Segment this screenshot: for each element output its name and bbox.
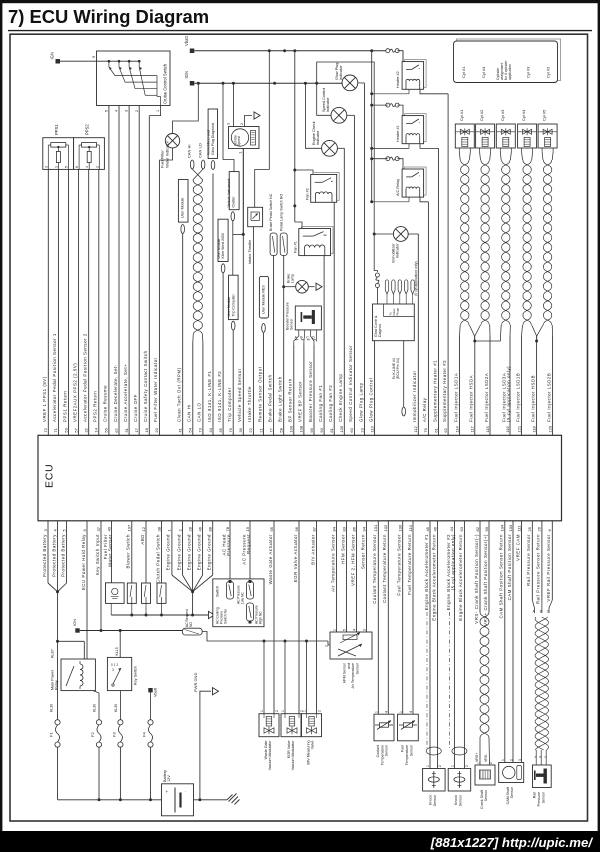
junction heater1 fuse tap bbox=[370, 104, 373, 107]
svg-text:87: 87 bbox=[311, 526, 316, 531]
svg-text:62: 62 bbox=[443, 427, 448, 432]
svg-text:Engine Ground: Engine Ground bbox=[207, 534, 212, 570]
svg-text:2: 2 bbox=[275, 710, 279, 712]
svg-text:Engine Ground: Engine Ground bbox=[186, 534, 191, 570]
svg-text:Protected Battery: Protected Battery bbox=[42, 534, 47, 577]
junction key switch input bbox=[100, 629, 103, 632]
node Vbatt bottom source bbox=[148, 687, 157, 697]
svg-text:CAM Shaft Position Sensor: CAM Shaft Position Sensor bbox=[507, 534, 512, 600]
crank shaft sensor box bbox=[475, 762, 495, 809]
svg-text:50: 50 bbox=[104, 427, 109, 432]
svg-text:Supplementary Heater #2: Supplementary Heater #2 bbox=[442, 360, 447, 422]
junction IGN bus bbox=[315, 82, 318, 85]
svg-text:45: 45 bbox=[425, 526, 430, 531]
svg-text:5: 5 bbox=[105, 110, 109, 112]
right page border bbox=[598, 0, 600, 852]
svg-text:Sensor: Sensor bbox=[541, 791, 545, 803]
wire pin 116 Fuel Injector LSD3A bbox=[502, 336, 512, 435]
svg-text:90: 90 bbox=[484, 526, 489, 531]
svg-text:101: 101 bbox=[373, 524, 378, 531]
svg-text:ISO 9141, K-LINE #1: ISO 9141, K-LINE #1 bbox=[207, 371, 212, 422]
injector braid 1 split bbox=[460, 325, 475, 341]
svg-text:6: 6 bbox=[75, 166, 79, 168]
svg-text:Glow Plug Lamp: Glow Plug Lamp bbox=[358, 382, 363, 422]
svg-text:120: 120 bbox=[547, 425, 552, 432]
injector braid 3 split bbox=[501, 325, 511, 341]
svg-text:Cooling Fan #1: Cooling Fan #1 bbox=[318, 385, 323, 422]
wire pin 18 Cruise Safety Contact Switch bbox=[143, 116, 149, 436]
svg-text:Main Power: Main Power bbox=[50, 669, 54, 690]
svg-text:Coolant Temperature Return: Coolant Temperature Return bbox=[382, 534, 387, 603]
wire pin 20 Fuel Filter Water Indicator bbox=[153, 160, 159, 435]
svg-text:1: 1 bbox=[303, 710, 307, 712]
junction bottom bus bbox=[149, 798, 152, 801]
junction ground bus bbox=[145, 614, 148, 617]
oval CAN LO connector bbox=[198, 143, 205, 169]
svg-text:KL30: KL30 bbox=[93, 704, 97, 712]
svg-text:Sensor: Sensor bbox=[433, 794, 437, 806]
svg-text:User Module: User Module bbox=[181, 198, 185, 218]
braid crank VRS bbox=[475, 612, 490, 765]
wire pin 83 HFM Sensor bbox=[340, 521, 346, 632]
fuse F1 bbox=[49, 720, 61, 800]
svg-text:95: 95 bbox=[269, 526, 274, 531]
svg-text:VRS-: VRS- bbox=[484, 753, 488, 762]
svg-text:Glow Contr &: Glow Contr & bbox=[374, 315, 378, 337]
wire pin 35 ISO 9141, K-LINE #2 bbox=[217, 273, 223, 435]
relay A/C bbox=[396, 167, 426, 197]
wire IGN to speed lamp bbox=[317, 83, 331, 115]
ABD switch box bbox=[142, 583, 151, 615]
svg-text:3: 3 bbox=[112, 668, 114, 672]
svg-text:94: 94 bbox=[361, 526, 366, 531]
wire IGN to cruise box bbox=[60, 60, 97, 62]
braid injector 2 twisted pair bbox=[480, 152, 491, 325]
svg-text:A: A bbox=[535, 755, 537, 759]
svg-text:NO: NO bbox=[189, 622, 193, 627]
wire pin 103 CAM Shaft Position Sensor bbox=[507, 521, 513, 763]
wire Vbatt to F4 bbox=[150, 692, 152, 719]
svg-text:53: 53 bbox=[63, 427, 68, 432]
svg-text:21: 21 bbox=[258, 427, 263, 432]
svg-text:Clutch Pedal Switch: Clutch Pedal Switch bbox=[155, 534, 160, 583]
svg-text:Sensor: Sensor bbox=[290, 318, 294, 330]
junction Vbatt bus bbox=[268, 49, 271, 52]
svg-text:Glow Plug Diagnosis: Glow Plug Diagnosis bbox=[211, 122, 215, 155]
svg-text:Cyl #1: Cyl #1 bbox=[459, 109, 464, 121]
svg-text:Water Indicator: Water Indicator bbox=[164, 140, 169, 168]
svg-text:Kline West 2000: Kline West 2000 bbox=[221, 233, 225, 258]
svg-text:Cyl #1: Cyl #1 bbox=[461, 66, 466, 78]
svg-text:Engine Ground: Engine Ground bbox=[166, 534, 171, 570]
wire pin 105 Check Engine Lamp bbox=[338, 148, 344, 435]
svg-text:Switch No: Switch No bbox=[223, 609, 227, 624]
ECU label bbox=[44, 463, 56, 488]
wire pin 23 Glow Plug Lamp bbox=[358, 83, 364, 435]
svg-text:Water Sensor: Water Sensor bbox=[108, 534, 113, 567]
booster pressure sensor box bbox=[285, 302, 321, 330]
svg-text:Speed Control Indicator Sensor: Speed Control Indicator Sensor bbox=[348, 345, 353, 422]
svg-text:User Module: User Module bbox=[217, 239, 221, 259]
junction ground bus bbox=[160, 614, 163, 617]
svg-text:111: 111 bbox=[516, 525, 521, 532]
wire heater1 out to pin61 bbox=[420, 144, 439, 149]
junction key switch feed bbox=[119, 629, 122, 657]
wire pin 34 ISO 9141, K-LINE #1 bbox=[207, 174, 213, 436]
wire speed lamp right bbox=[347, 114, 355, 116]
junction ac coil return bbox=[370, 200, 373, 203]
svg-text:79: 79 bbox=[423, 427, 428, 432]
relay Heater #2 bbox=[396, 60, 426, 90]
left page border bbox=[0, 0, 2, 852]
user module trip computer box bbox=[227, 275, 238, 319]
svg-text:Clean Tach Out (RPM): Clean Tach Out (RPM) bbox=[177, 367, 182, 422]
svg-text:Rail: Rail bbox=[533, 792, 537, 798]
watermark text bbox=[430, 835, 594, 850]
oval kline west connector bbox=[221, 264, 225, 273]
HFM sensor box bbox=[325, 629, 373, 689]
svg-text:User Module: User Module bbox=[227, 297, 231, 317]
svg-text:Sensor: Sensor bbox=[409, 744, 413, 756]
wire IGN to engine check lamp bbox=[305, 83, 321, 148]
glow control box bbox=[373, 304, 415, 341]
wire pin 113 Glow Plug Control bbox=[368, 341, 374, 436]
wire pin 19 AC Pressure bbox=[242, 521, 252, 579]
svg-text:Waste Gate Actuator: Waste Gate Actuator bbox=[268, 534, 273, 584]
svg-text:73: 73 bbox=[198, 427, 203, 432]
svg-text:83: 83 bbox=[341, 526, 346, 531]
svg-text:5: 5 bbox=[343, 629, 347, 631]
svg-text:Plugs: Plugs bbox=[395, 307, 399, 315]
svg-text:2: 2 bbox=[135, 110, 139, 112]
cruise control switch box bbox=[92, 51, 170, 106]
svg-text:100: 100 bbox=[398, 524, 403, 531]
svg-text:44: 44 bbox=[449, 526, 454, 531]
wire bus into HFM bbox=[328, 641, 330, 645]
svg-text:34: 34 bbox=[208, 427, 213, 432]
svg-text:1: 1 bbox=[477, 762, 481, 764]
svg-text:60: 60 bbox=[349, 427, 354, 432]
wire Vbatt fuse to heater2 bbox=[398, 51, 404, 62]
pedal position sensor PPS2 bbox=[74, 124, 105, 170]
wire pin 63 Engine Block Accelerometer Return bbox=[458, 521, 464, 769]
svg-text:Protected Battery: Protected Battery bbox=[60, 534, 65, 577]
svg-text:PPS2 Return: PPS2 Return bbox=[93, 391, 98, 422]
svg-text:Fuel Temperature Sensor: Fuel Temperature Sensor bbox=[397, 534, 402, 596]
svg-text:2: 2 bbox=[510, 759, 514, 761]
junction HSDA merge bbox=[473, 340, 500, 343]
svg-text:PPS1 Return: PPS1 Return bbox=[62, 391, 67, 422]
svg-text:Temperature: Temperature bbox=[380, 745, 384, 765]
wire bottom battery bus bbox=[58, 799, 228, 801]
fuel temperature sensor box bbox=[398, 711, 419, 765]
svg-text:1: 1 bbox=[501, 759, 505, 761]
svg-text:+: + bbox=[166, 789, 169, 794]
braid injector 1 twisted pair bbox=[459, 152, 470, 325]
wire pin 50 Cruise Resume bbox=[103, 106, 109, 436]
svg-text:25: 25 bbox=[527, 526, 532, 531]
node IGN bottom source bbox=[72, 619, 80, 633]
svg-text:77: 77 bbox=[268, 427, 273, 432]
wire IGN to instrument cluster bbox=[223, 83, 234, 171]
svg-text:Sensor: Sensor bbox=[385, 744, 389, 756]
svg-text:Vbatt: Vbatt bbox=[184, 35, 189, 46]
vehicle instrument cluster box bbox=[227, 172, 239, 210]
svg-text:Engine Block Accelerometer Ret: Engine Block Accelerometer Return bbox=[431, 534, 436, 621]
svg-text:Fuel Filter Water Indicator: Fuel Filter Water Indicator bbox=[153, 357, 158, 422]
wire lamp top to IGN bus bbox=[173, 83, 199, 133]
battery box bbox=[162, 770, 194, 816]
wire Vbatt to intake throttle bbox=[255, 51, 270, 208]
junction modulator bus bbox=[284, 640, 287, 643]
wire pin 54 CAN Hi bbox=[187, 343, 193, 435]
AC request switch capsule bbox=[182, 609, 202, 635]
svg-text:Key Switch Input: Key Switch Input bbox=[95, 534, 100, 575]
svg-text:4: 4 bbox=[85, 166, 89, 168]
vacuum modulator EGR Valve bbox=[281, 641, 304, 770]
wire fuse to heater1 bbox=[372, 105, 403, 116]
wire pin 86 VREF 2, HFM Sensor bbox=[350, 521, 356, 632]
wire pin 60 Speed Control Indicator Sensor bbox=[348, 115, 354, 435]
svg-text:5: 5 bbox=[65, 166, 69, 168]
wire pin 25 Rail Pressure Sensor bbox=[526, 521, 532, 600]
wire heater1 coil return bbox=[372, 144, 409, 149]
svg-text:VRS- Crank Shaft Position Sens: VRS- Crank Shaft Position Sensor(-) bbox=[474, 534, 479, 624]
wire pin 53 PPS1 Return bbox=[62, 169, 68, 435]
svg-text:Immobilizer and: Immobilizer and bbox=[207, 130, 211, 155]
svg-text:Engine Block Accelerometer Ret: Engine Block Accelerometer Return bbox=[458, 534, 463, 621]
svg-text:Fuel Temperature Return: Fuel Temperature Return bbox=[407, 534, 412, 595]
cam shaft sensor box bbox=[499, 759, 524, 804]
svg-text:9: 9 bbox=[92, 56, 96, 58]
svg-text:ISO 9141, K-LINE #2: ISO 9141, K-LINE #2 bbox=[217, 371, 222, 422]
wire pin 107 Blower Switch bbox=[126, 521, 132, 583]
node Vbatt source bbox=[184, 35, 194, 53]
svg-text:118: 118 bbox=[531, 425, 536, 432]
svg-text:IGN: IGN bbox=[184, 71, 189, 78]
junction KL87 bbox=[56, 640, 59, 643]
svg-text:VREF 2, HFM Sensor: VREF 2, HFM Sensor bbox=[350, 534, 355, 586]
fuse F2 bbox=[90, 720, 102, 800]
wire feed to fan2 bbox=[295, 170, 313, 175]
wire pin 37 Key Switch Input bbox=[95, 521, 101, 631]
wire IGN to gauge pin3 bbox=[232, 83, 234, 126]
svg-text:2: 2 bbox=[317, 710, 321, 712]
svg-text:Engine Check: Engine Check bbox=[312, 121, 316, 145]
svg-text:Heater #1: Heater #1 bbox=[396, 125, 400, 142]
wire pin 100 Fuel Temperature Sensor bbox=[397, 521, 403, 716]
brake pedal switch NC capsule bbox=[269, 193, 277, 255]
junction ac relay fuse tap bbox=[370, 157, 373, 160]
wire glow control to pin113 bbox=[374, 340, 376, 342]
svg-text:Coolant Temperature Sensor: Coolant Temperature Sensor bbox=[372, 534, 377, 604]
fuel filter water sensor box bbox=[106, 583, 125, 615]
svg-text:F4: F4 bbox=[142, 732, 147, 737]
svg-text:VREF CAM: VREF CAM bbox=[515, 534, 520, 561]
svg-text:Check Engine Lamp: Check Engine Lamp bbox=[338, 373, 343, 422]
wire pin 117 Fuel Injector HSDA bbox=[469, 341, 475, 435]
oval instrument cluster connector bbox=[231, 212, 235, 221]
svg-text:Fan #1: Fan #1 bbox=[294, 241, 298, 253]
svg-text:Cyl #3: Cyl #3 bbox=[526, 66, 531, 78]
svg-text:CAM Shaft: CAM Shaft bbox=[506, 787, 510, 804]
glow plugs bbox=[385, 280, 414, 304]
wire pin 76 Trip Computer bbox=[227, 330, 233, 435]
svg-text:Key Switch: Key Switch bbox=[134, 666, 138, 685]
wire pin 40 Fuel Filter bbox=[103, 521, 113, 583]
wire pin 17 Cruise OFF bbox=[133, 106, 139, 436]
wire pin 104 CAM Shaft Position Sensor Return bbox=[499, 521, 505, 763]
svg-text:1: 1 bbox=[156, 110, 160, 112]
svg-text:Engine Ground: Engine Ground bbox=[196, 534, 201, 570]
svg-text:(5 cyl application only): (5 cyl application only) bbox=[414, 261, 418, 296]
svg-text:17: 17 bbox=[134, 427, 139, 432]
svg-text:Immobilizer Indicator: Immobilizer Indicator bbox=[412, 370, 417, 422]
wire Vbatt fan feeder bbox=[294, 51, 296, 222]
svg-text:IGN: IGN bbox=[50, 52, 55, 59]
ground symbol bbox=[227, 794, 240, 805]
wire cruise pin1 to pin18 bbox=[149, 106, 160, 116]
svg-text:Cyl #5: Cyl #5 bbox=[542, 109, 547, 121]
svg-text:2: 2 bbox=[240, 123, 244, 125]
wire pin 120 Fuel Injector LSD2B bbox=[546, 336, 552, 435]
wire pin 38 Clutch Pedal Switch bbox=[155, 521, 161, 583]
fuse F3 bbox=[111, 720, 123, 800]
wire pin 58 Brake Light Switch bbox=[278, 256, 284, 436]
svg-text:18: 18 bbox=[144, 427, 149, 432]
knock sensor box bbox=[423, 765, 446, 806]
svg-text:Fuel Injector HSDB: Fuel Injector HSDB bbox=[530, 375, 535, 422]
wire AC request to box bbox=[202, 632, 264, 642]
svg-text:BIV Actuator: BIV Actuator bbox=[310, 534, 315, 565]
svg-text:Cyl #2: Cyl #2 bbox=[479, 109, 484, 121]
cruise switch contacts bbox=[97, 60, 161, 106]
svg-text:Speed Control: Speed Control bbox=[322, 88, 326, 112]
svg-text:PWR GND: PWR GND bbox=[193, 673, 198, 692]
svg-text:Accelerator Pedal Position Sen: Accelerator Pedal Position Sensor 1 bbox=[52, 333, 57, 422]
svg-text:Glow Plug: Glow Plug bbox=[335, 63, 339, 80]
ECU box bbox=[38, 435, 562, 521]
wire pin 79 A/C Relay bbox=[422, 202, 428, 435]
oval trip computer connector bbox=[231, 321, 235, 330]
svg-text:Supplementary Heater #1: Supplementary Heater #1 bbox=[432, 360, 437, 422]
svg-text:KL30: KL30 bbox=[50, 704, 54, 712]
pedal position sensor PPS1 bbox=[43, 124, 74, 170]
svg-text:105: 105 bbox=[339, 425, 344, 432]
wire Vbatt bus bbox=[194, 50, 386, 52]
wire pin 77 Brake Pedal Switch bbox=[267, 256, 273, 436]
wire pin 111 VREF CAM bbox=[515, 521, 521, 763]
svg-text:7) ECU Wiring Diagram: 7) ECU Wiring Diagram bbox=[8, 6, 209, 27]
fuel injector Cyl #4 bbox=[518, 109, 537, 152]
svg-text:Waste Gate: Waste Gate bbox=[264, 741, 268, 760]
svg-text:PPS2: PPS2 bbox=[85, 124, 90, 135]
wire pin 82 VRS- Crank Shaft Position Sensor(-) bbox=[474, 521, 480, 624]
svg-text:ECU: ECU bbox=[44, 463, 56, 488]
svg-text:104: 104 bbox=[500, 524, 505, 531]
svg-text:4: 4 bbox=[115, 110, 119, 112]
wire pin 41 Clean Tach Out (RPM) bbox=[177, 234, 183, 436]
wire pin 101 Coolant Temperature Sensor bbox=[372, 521, 378, 714]
wire pin 95 Waste Gate Actuator bbox=[268, 521, 274, 714]
svg-text:Trip Computer: Trip Computer bbox=[227, 387, 232, 422]
svg-text:B: B bbox=[540, 755, 542, 759]
wire pin 112 Immobilizer Indicator bbox=[412, 234, 418, 435]
svg-text:Sensor: Sensor bbox=[510, 786, 514, 798]
relay Fan #2 bbox=[306, 173, 340, 203]
oval diagnosis connector bbox=[211, 161, 215, 170]
knock sensor shield bbox=[426, 612, 441, 755]
svg-text:Fuel Injector LSD2A: Fuel Injector LSD2A bbox=[484, 373, 489, 422]
wire pin 28 Engine Ground bbox=[186, 521, 192, 592]
svg-text:IGN: IGN bbox=[72, 619, 77, 626]
arrow speed signal output bbox=[254, 112, 260, 119]
svg-text:Protected Battery: Protected Battery bbox=[51, 534, 56, 577]
svg-text:Fuel Injector LSD1A: Fuel Injector LSD1A bbox=[453, 373, 458, 422]
svg-text:Cyl #4: Cyl #4 bbox=[521, 109, 526, 121]
svg-text:Cyl #4: Cyl #4 bbox=[481, 66, 486, 78]
svg-text:Switch: Switch bbox=[215, 586, 219, 597]
svg-text:Cruise Accelerate, Set+: Cruise Accelerate, Set+ bbox=[123, 364, 128, 422]
wire pin 71 Accelerator Pedal Position Sensor 1 bbox=[52, 169, 58, 435]
injector braid 5 split bbox=[537, 325, 553, 341]
wire KL87 bus bbox=[58, 641, 85, 659]
svg-text:VREF 1 PPS1 (5V): VREF 1 PPS1 (5V) bbox=[42, 376, 47, 422]
wire fuse to ac relay bbox=[398, 159, 404, 169]
svg-text:3: 3 bbox=[227, 123, 231, 125]
junction Vbatt bus bbox=[370, 49, 373, 52]
wire pin 57 VREF2AUX PPS2 (2.5V) bbox=[72, 169, 78, 435]
wire pin 3 Protected Battery bbox=[42, 521, 48, 583]
junction IGN bus bbox=[232, 82, 235, 85]
svg-text:To K-LINE #1: To K-LINE #1 bbox=[392, 358, 396, 379]
svg-text:Air Temperature: Air Temperature bbox=[351, 663, 355, 689]
wire pin 62 Supplementary Heater #2 bbox=[442, 94, 448, 436]
svg-text:Sensor: Sensor bbox=[484, 789, 488, 801]
vacuum modulator Waste Gate bbox=[259, 641, 279, 770]
gauge vehicle speed box bbox=[227, 123, 260, 154]
wire pin 87 BIV Actuator bbox=[310, 521, 316, 714]
wire pin 96 EGR Valve Actuator bbox=[293, 521, 299, 714]
svg-text:88: 88 bbox=[208, 526, 213, 531]
junction IGN bus bbox=[273, 82, 276, 85]
AC pressure switch assembly bbox=[213, 579, 264, 627]
svg-text:Vbatt: Vbatt bbox=[154, 687, 158, 697]
svg-text:82: 82 bbox=[475, 526, 480, 531]
svg-text:107: 107 bbox=[127, 524, 132, 531]
svg-text:Glow Plug Control: Glow Plug Control bbox=[368, 378, 373, 422]
wire pin 115 Fuel Injector LSD2A bbox=[484, 336, 490, 435]
braid injector 4 twisted pair bbox=[522, 152, 533, 325]
node IGN source bbox=[184, 71, 194, 85]
svg-text:PPS1: PPS1 bbox=[54, 124, 59, 135]
svg-text:CAM Shaft Position Sensor Retu: CAM Shaft Position Sensor Return bbox=[499, 534, 504, 619]
svg-text:1: 1 bbox=[426, 765, 430, 767]
wire pin 84 Air Temperature Sensor bbox=[330, 521, 336, 632]
cylinder assignment box bbox=[454, 39, 561, 83]
svg-text:F2: F2 bbox=[90, 732, 95, 737]
svg-text:117: 117 bbox=[470, 425, 475, 432]
svg-text:23: 23 bbox=[359, 427, 364, 432]
svg-text:63: 63 bbox=[459, 526, 464, 531]
svg-text:2: 2 bbox=[489, 762, 493, 764]
svg-text:Brake Pedal Switch NC: Brake Pedal Switch NC bbox=[269, 193, 273, 231]
junction HSDB merge bbox=[535, 340, 538, 343]
cruise pin 1 bbox=[156, 110, 160, 112]
svg-text:HFM Sensor: HFM Sensor bbox=[340, 534, 345, 564]
fuel injector Cyl #2 bbox=[476, 109, 495, 152]
wire rail funnel bbox=[532, 600, 552, 613]
